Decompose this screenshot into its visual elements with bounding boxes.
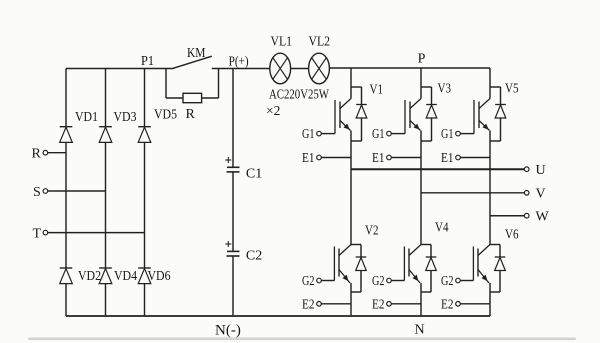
diode VD5: [138, 127, 151, 143]
terminal G2 of V4: [372, 274, 391, 289]
svg-text:VD5: VD5: [154, 108, 177, 123]
wire E1 lead of V1: [322, 157, 352, 159]
lamp VL1: [270, 53, 291, 84]
svg-text:P(+): P(+): [229, 55, 249, 70]
wire phase output U: [351, 168, 524, 170]
IGBT V6: [461, 245, 506, 317]
svg-text:C1: C1: [246, 167, 262, 182]
terminal S input: [33, 185, 48, 200]
wire column 1 middle segment: [65, 142, 67, 268]
wire S lead: [48, 190, 106, 192]
terminal G1 of V1: [302, 127, 321, 142]
svg-text:VD1: VD1: [75, 110, 98, 125]
svg-text:U: U: [536, 163, 546, 178]
wire bottom rail N(-): [66, 315, 490, 317]
svg-text:P1: P1: [141, 54, 154, 69]
svg-text:KM: KM: [187, 46, 206, 61]
lamp VL2 label: [309, 35, 331, 50]
svg-text:P: P: [418, 52, 426, 67]
diode VD1: [60, 127, 73, 143]
svg-text:E1: E1: [372, 151, 385, 166]
wire E2 lead of V4: [392, 303, 422, 305]
wire leg 1 midpoint vertical: [350, 131, 352, 245]
node N label: [415, 323, 425, 338]
svg-text:C2: C2: [246, 249, 262, 264]
wire E2 lead of V6: [461, 303, 491, 305]
svg-text:×2: ×2: [266, 103, 280, 118]
wire R lead: [48, 152, 66, 154]
lamp VL2: [309, 53, 330, 84]
resistor R: [183, 93, 202, 102]
wire bypass right rise: [202, 69, 219, 99]
wire cap column middle: [232, 172, 234, 252]
diode VD1 label: [75, 110, 98, 125]
IGBT V2 label: [365, 224, 379, 239]
lamp quantity label x2: [266, 103, 280, 118]
switch KM blade: [172, 56, 212, 69]
wire E1 lead of V3: [392, 157, 422, 159]
terminal E2 of V2: [302, 297, 321, 312]
switch KM label: [187, 46, 206, 61]
svg-text:G1: G1: [441, 127, 454, 142]
wire column 1 lower segment: [65, 284, 67, 316]
IGBT V5: [461, 68, 506, 141]
wire column 2 upper segment: [105, 69, 107, 127]
svg-text:E2: E2: [302, 297, 315, 312]
capacitor C1 label: [246, 167, 262, 182]
IGBT V4: [392, 245, 437, 317]
scan smudge bottom: [28, 338, 576, 341]
wire top rail mid to lamps: [212, 68, 270, 70]
svg-text:N(-): N(-): [215, 323, 241, 339]
svg-text:V3: V3: [438, 82, 452, 97]
terminal T input: [33, 226, 48, 241]
IGBT V1 label: [370, 83, 384, 98]
svg-text:VL1: VL1: [271, 35, 293, 50]
svg-text:VD2: VD2: [78, 269, 101, 284]
svg-text:N: N: [415, 323, 425, 338]
lamp VL1 label: [271, 35, 293, 50]
capacitor C2 label: [246, 249, 262, 264]
svg-text:VD3: VD3: [114, 110, 137, 125]
terminal V: [524, 187, 545, 202]
terminal G1 of V5: [441, 127, 460, 142]
svg-text:E1: E1: [441, 151, 454, 166]
diode VD6: [138, 268, 151, 284]
lamp rating label AC220V25W: [269, 87, 329, 102]
svg-text:G2: G2: [302, 274, 315, 289]
node P1: [141, 54, 154, 69]
node P(+): [229, 55, 249, 70]
IGBT V3 label: [438, 82, 452, 97]
wire bypass left drop: [166, 69, 183, 99]
diode VD4 label: [114, 269, 137, 284]
terminal G1 of V3: [372, 127, 391, 142]
terminal U: [524, 163, 545, 178]
wire E2 lead of V2: [322, 303, 352, 305]
diode VD2 label: [78, 269, 101, 284]
node N(-) label: [215, 323, 241, 339]
capacitor C2: [227, 251, 240, 256]
svg-text:R: R: [32, 146, 42, 161]
wire leg 2 midpoint vertical: [420, 131, 422, 245]
svg-text:G2: G2: [372, 274, 385, 289]
wire top rail left (P1 rail): [66, 68, 172, 70]
wire phase output W: [490, 215, 524, 217]
wire leg 3 midpoint vertical: [489, 131, 491, 245]
terminal E1 of V5: [441, 151, 460, 166]
svg-text:V2: V2: [365, 224, 379, 239]
C1 polarity +: [225, 157, 231, 163]
wire cap column lower: [232, 256, 234, 316]
terminal R input: [32, 146, 48, 161]
wire column 1 upper segment: [65, 69, 67, 127]
terminal E1 of V3: [372, 151, 391, 166]
capacitor C1: [227, 167, 240, 172]
IGBT V4 label: [435, 221, 449, 236]
wire column 3 middle segment: [144, 142, 146, 268]
diode VD3 label: [114, 110, 137, 125]
IGBT V3: [392, 68, 437, 141]
terminal E1 of V1: [302, 151, 321, 166]
svg-text:R: R: [186, 107, 196, 122]
wire column 2 middle segment: [105, 142, 107, 268]
wire T lead: [48, 232, 145, 234]
C2 polarity +: [225, 241, 231, 247]
svg-text:AC220V25W: AC220V25W: [269, 87, 329, 102]
svg-text:V5: V5: [505, 82, 519, 97]
resistor R label: [186, 107, 196, 122]
IGBT V5 label: [505, 82, 519, 97]
svg-text:G2: G2: [441, 274, 454, 289]
diode VD4: [99, 268, 112, 284]
svg-text:G1: G1: [302, 127, 315, 142]
wire cap column upper: [232, 69, 234, 168]
terminal E2 of V4: [372, 297, 391, 312]
svg-text:VD6: VD6: [148, 269, 171, 284]
svg-text:V1: V1: [370, 83, 384, 98]
wire column 3 lower segment: [144, 284, 146, 316]
node P: [418, 52, 426, 67]
svg-text:T: T: [33, 226, 42, 241]
svg-text:E2: E2: [441, 297, 454, 312]
diode VD3: [99, 127, 112, 143]
wire top rail right (P rail): [329, 67, 490, 69]
diode VD6 label: [148, 269, 171, 284]
diode VD5 label: [154, 108, 177, 123]
diode VD2: [60, 268, 73, 284]
wire between lamps: [291, 68, 309, 70]
IGBT V2: [322, 245, 367, 317]
IGBT V1: [322, 68, 367, 141]
wire column 3 upper segment: [144, 69, 146, 127]
svg-text:V6: V6: [505, 228, 519, 243]
svg-text:V4: V4: [435, 221, 449, 236]
svg-text:E2: E2: [372, 297, 385, 312]
terminal G2 of V6: [441, 274, 460, 289]
wire phase output V: [421, 192, 524, 194]
svg-text:G1: G1: [372, 127, 385, 142]
wire column 2 lower segment: [105, 284, 107, 316]
IGBT V6 label: [505, 228, 519, 243]
svg-text:VL2: VL2: [309, 35, 331, 50]
terminal E2 of V6: [441, 297, 460, 312]
svg-text:E1: E1: [302, 151, 315, 166]
svg-text:W: W: [536, 210, 550, 225]
svg-text:V: V: [536, 187, 546, 202]
terminal G2 of V2: [302, 274, 321, 289]
terminal W: [524, 210, 549, 225]
svg-text:VD4: VD4: [114, 269, 137, 284]
wire E1 lead of V5: [461, 157, 491, 159]
svg-text:S: S: [33, 185, 41, 200]
